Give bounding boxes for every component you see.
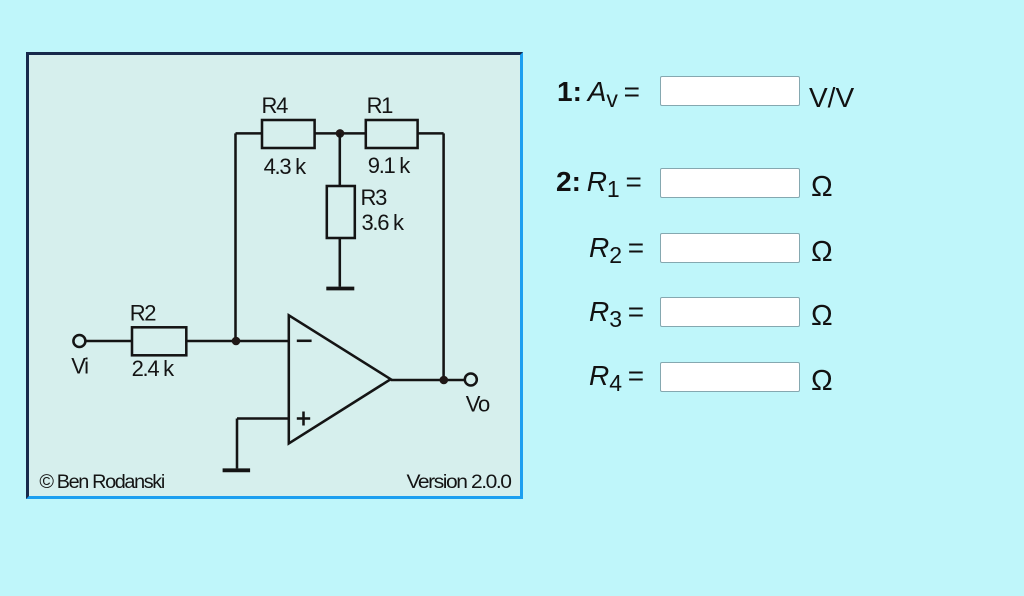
circuit panel (26, 52, 523, 499)
svg-text:R1: R1 (367, 93, 394, 118)
resistor R2 (132, 327, 186, 355)
svg-text:R4: R4 (262, 93, 289, 118)
unit ohm 2 (811, 236, 833, 269)
node junction output (440, 376, 449, 385)
input R3 (660, 297, 800, 327)
svg-text:9.1 k: 9.1 k (368, 153, 411, 178)
wire: R2 to op-amp inverting input (186, 340, 288, 343)
input R2 (660, 233, 800, 263)
wire: top rail left segment (236, 132, 263, 135)
svg-text:4.3 k: 4.3 k (264, 154, 307, 179)
input Av (660, 76, 800, 106)
form row 3: R2 (589, 232, 644, 264)
op-amp minus pin marker (297, 340, 312, 343)
wire: left vertical rail (234, 133, 237, 341)
svg-text:Vo: Vo (466, 392, 490, 417)
svg-text:© Ben Rodanski: © Ben Rodanski (39, 472, 164, 493)
wire: Vi to R2 (86, 340, 132, 343)
wire: R3 to ground (339, 238, 342, 287)
svg-text:2.4 k: 2.4 k (132, 356, 175, 381)
form row 4: R3 (589, 296, 644, 328)
svg-text:R3: R3 (361, 185, 388, 210)
unit ohm 3 (811, 300, 833, 333)
unit ohm 1 (811, 171, 833, 204)
resistor R4 (262, 120, 315, 148)
wire: non-inverting input (237, 417, 289, 420)
svg-text:3.6 k: 3.6 k (362, 210, 405, 235)
input R4 (660, 362, 800, 392)
form row 1: Av (557, 76, 640, 108)
svg-text:R2: R2 (130, 301, 157, 326)
op-amp plus pin marker (297, 417, 310, 420)
node junction input (232, 337, 241, 346)
resistor R1 (366, 120, 418, 148)
input R1 (660, 168, 800, 198)
op-amp U1 (289, 315, 391, 443)
unit V/V (809, 82, 854, 114)
ground (under R3) (326, 287, 354, 291)
wire: R4 to junction to R1 (315, 132, 366, 135)
wire: op-amp output (391, 379, 464, 382)
resistor R3 (327, 186, 355, 238)
wire: down to ground (236, 419, 239, 469)
terminal Vi (73, 335, 85, 347)
terminal Vo (465, 374, 477, 386)
node junction top (336, 129, 345, 138)
unit ohm 4 (811, 365, 833, 398)
svg-text:Vi: Vi (71, 354, 88, 379)
svg-text:Version 2.0.0: Version 2.0.0 (407, 472, 512, 493)
wire: junction down to R3 (339, 133, 342, 186)
form row 5: R4 (589, 360, 644, 392)
ground (op-amp + input) (223, 468, 251, 472)
wire: right vertical rail (442, 133, 445, 380)
wire: R1 to right rail (418, 132, 444, 135)
form row 2: R1 (556, 166, 642, 198)
